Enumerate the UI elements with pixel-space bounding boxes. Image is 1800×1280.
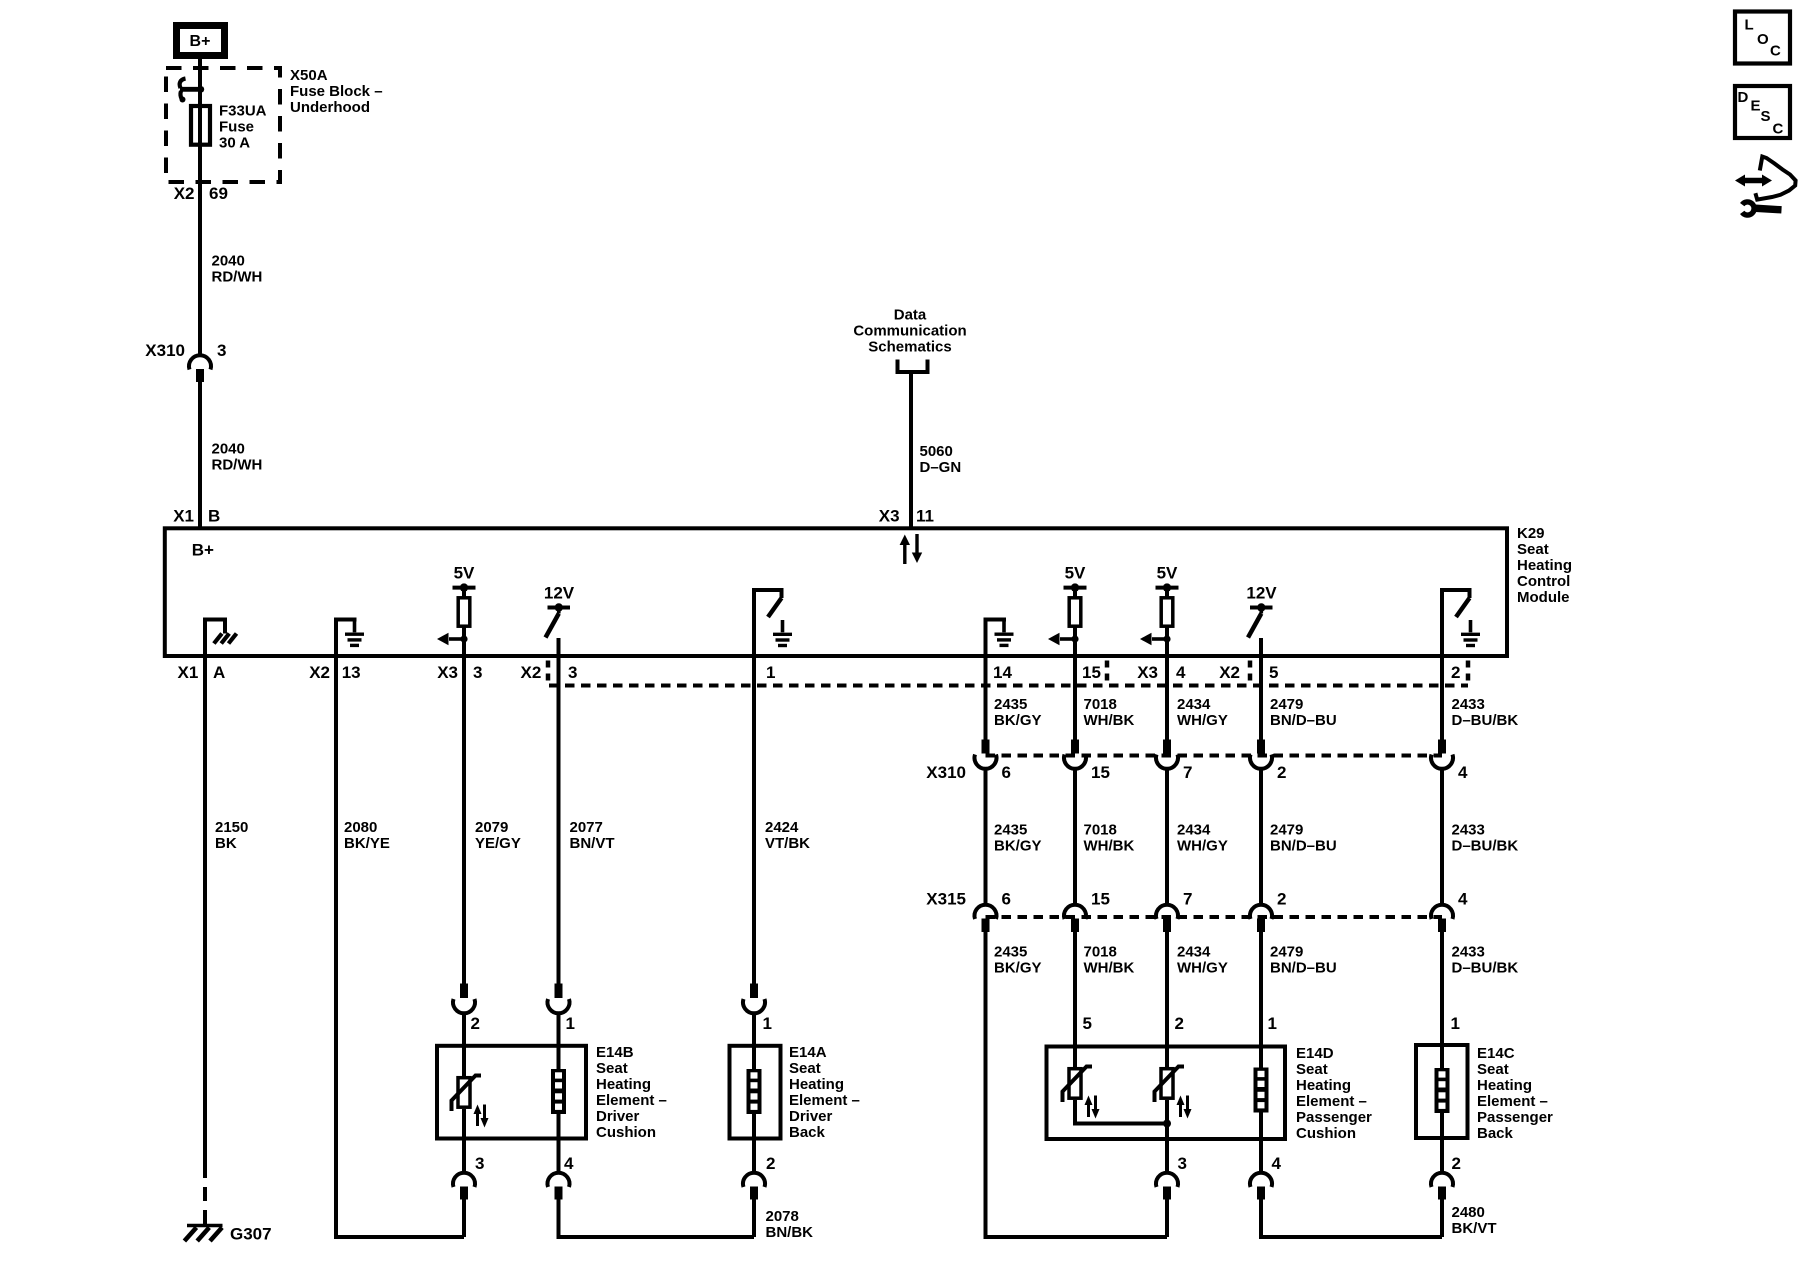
svg-text:E14A: E14A (789, 1044, 827, 1061)
svg-text:7018: 7018 (1084, 822, 1117, 839)
svg-text:2424: 2424 (765, 819, 799, 836)
svg-text:BK/GY: BK/GY (994, 960, 1042, 977)
svg-text:Heating: Heating (1477, 1077, 1532, 1094)
svg-text:Driver: Driver (596, 1108, 640, 1125)
svg-text:E: E (1751, 98, 1761, 115)
svg-text:X3: X3 (437, 663, 458, 682)
svg-text:5: 5 (1269, 663, 1278, 682)
svg-text:E14B: E14B (596, 1044, 634, 1061)
svg-text:3: 3 (473, 663, 482, 682)
svg-text:14: 14 (993, 663, 1012, 682)
svg-text:5060: 5060 (920, 443, 953, 460)
svg-text:E14D: E14D (1296, 1045, 1334, 1062)
svg-text:2: 2 (1277, 889, 1286, 908)
svg-text:2479: 2479 (1270, 822, 1303, 839)
svg-text:Element –: Element – (1296, 1093, 1367, 1110)
svg-text:B: B (208, 506, 220, 525)
svg-text:X310: X310 (145, 341, 185, 360)
svg-text:D–BU/BK: D–BU/BK (1452, 838, 1519, 855)
svg-text:Driver: Driver (789, 1108, 833, 1125)
svg-text:X2: X2 (1219, 663, 1240, 682)
svg-text:2: 2 (1452, 1154, 1461, 1173)
svg-text:X1: X1 (178, 663, 199, 682)
svg-text:5V: 5V (454, 563, 475, 582)
svg-text:7: 7 (1183, 889, 1192, 908)
svg-text:2040: 2040 (212, 253, 245, 270)
svg-text:6: 6 (1002, 889, 1011, 908)
svg-text:2079: 2079 (475, 819, 508, 836)
svg-text:D–BU/BK: D–BU/BK (1452, 712, 1519, 729)
svg-text:15: 15 (1091, 763, 1110, 782)
svg-text:2435: 2435 (994, 822, 1027, 839)
svg-text:5: 5 (1083, 1014, 1092, 1033)
svg-text:15: 15 (1082, 663, 1101, 682)
svg-text:O: O (1757, 31, 1769, 48)
svg-text:Seat: Seat (1477, 1061, 1509, 1078)
svg-text:S: S (1761, 108, 1771, 125)
svg-text:Back: Back (1477, 1125, 1514, 1142)
svg-text:RD/WH: RD/WH (212, 269, 263, 286)
svg-text:30 A: 30 A (219, 134, 250, 151)
svg-text:2150: 2150 (215, 819, 248, 836)
svg-text:BK/VT: BK/VT (1452, 1220, 1497, 1237)
svg-text:Heating: Heating (1296, 1077, 1351, 1094)
svg-text:11: 11 (916, 506, 934, 525)
svg-text:2: 2 (471, 1014, 480, 1033)
svg-text:Back: Back (789, 1124, 826, 1141)
svg-text:BN/D–BU: BN/D–BU (1270, 838, 1337, 855)
svg-text:1: 1 (766, 663, 775, 682)
svg-text:69: 69 (209, 184, 228, 203)
svg-text:X2: X2 (174, 184, 195, 203)
svg-text:X1: X1 (173, 506, 194, 525)
svg-text:BN/VT: BN/VT (570, 835, 615, 852)
svg-text:Seat: Seat (596, 1060, 628, 1077)
svg-text:WH/BK: WH/BK (1084, 712, 1135, 729)
svg-text:D–GN: D–GN (920, 459, 962, 476)
svg-text:2433: 2433 (1452, 822, 1485, 839)
svg-text:Cushion: Cushion (596, 1124, 656, 1141)
svg-text:7018: 7018 (1084, 944, 1117, 961)
svg-text:Data: Data (894, 306, 927, 323)
svg-text:4: 4 (1458, 889, 1468, 908)
svg-text:1: 1 (1451, 1014, 1460, 1033)
svg-text:3: 3 (568, 663, 577, 682)
svg-text:F33UA: F33UA (219, 102, 267, 119)
svg-text:Underhood: Underhood (290, 99, 370, 116)
svg-text:BK/GY: BK/GY (994, 838, 1042, 855)
svg-text:Element –: Element – (596, 1092, 667, 1109)
svg-text:WH/GY: WH/GY (1177, 960, 1228, 977)
svg-text:2434: 2434 (1177, 696, 1211, 713)
svg-text:BN/D–BU: BN/D–BU (1270, 712, 1337, 729)
svg-text:X2: X2 (309, 663, 330, 682)
svg-text:Passenger: Passenger (1296, 1109, 1372, 1126)
svg-text:2: 2 (1451, 663, 1460, 682)
svg-text:2: 2 (1175, 1014, 1184, 1033)
svg-text:BK/YE: BK/YE (344, 835, 390, 852)
svg-text:Control: Control (1517, 573, 1570, 590)
svg-text:2479: 2479 (1270, 944, 1303, 961)
svg-text:BN/D–BU: BN/D–BU (1270, 960, 1337, 977)
svg-text:BN/BK: BN/BK (766, 1224, 814, 1241)
svg-text:2080: 2080 (344, 819, 377, 836)
svg-text:2435: 2435 (994, 696, 1027, 713)
svg-text:12V: 12V (544, 584, 575, 603)
svg-text:2479: 2479 (1270, 696, 1303, 713)
svg-text:2435: 2435 (994, 944, 1027, 961)
svg-text:A: A (213, 663, 225, 682)
svg-text:1: 1 (566, 1014, 575, 1033)
svg-text:2480: 2480 (1452, 1204, 1485, 1221)
svg-text:C: C (1770, 43, 1781, 60)
svg-text:2433: 2433 (1452, 696, 1485, 713)
svg-text:4: 4 (1272, 1154, 1282, 1173)
svg-text:BK/GY: BK/GY (994, 712, 1042, 729)
svg-text:X315: X315 (926, 889, 966, 908)
svg-text:Heating: Heating (596, 1076, 651, 1093)
svg-text:4: 4 (1176, 663, 1186, 682)
svg-text:7: 7 (1183, 763, 1192, 782)
svg-text:X310: X310 (926, 763, 966, 782)
svg-text:2434: 2434 (1177, 944, 1211, 961)
svg-text:2433: 2433 (1452, 944, 1485, 961)
svg-text:B+: B+ (190, 33, 211, 50)
svg-text:1: 1 (1268, 1014, 1277, 1033)
svg-text:2: 2 (1277, 763, 1286, 782)
svg-text:2077: 2077 (570, 819, 603, 836)
svg-text:Seat: Seat (789, 1060, 821, 1077)
svg-text:Element –: Element – (1477, 1093, 1548, 1110)
svg-text:Module: Module (1517, 589, 1570, 606)
svg-text:13: 13 (342, 663, 361, 682)
svg-text:Schematics: Schematics (868, 338, 951, 355)
svg-text:Seat: Seat (1296, 1061, 1328, 1078)
svg-text:VT/BK: VT/BK (765, 835, 810, 852)
svg-text:Communication: Communication (853, 322, 966, 339)
svg-text:X3: X3 (1137, 663, 1158, 682)
svg-text:X3: X3 (879, 506, 900, 525)
svg-text:D: D (1738, 89, 1749, 106)
svg-text:Seat: Seat (1517, 541, 1549, 558)
svg-text:E14C: E14C (1477, 1045, 1515, 1062)
svg-text:WH/GY: WH/GY (1177, 712, 1228, 729)
svg-text:WH/BK: WH/BK (1084, 960, 1135, 977)
svg-text:5V: 5V (1157, 563, 1178, 582)
svg-text:4: 4 (564, 1154, 574, 1173)
svg-text:12V: 12V (1246, 584, 1277, 603)
svg-text:RD/WH: RD/WH (212, 457, 263, 474)
svg-text:2434: 2434 (1177, 822, 1211, 839)
svg-text:BK: BK (215, 835, 237, 852)
svg-text:X50A: X50A (290, 67, 328, 84)
svg-text:K29: K29 (1517, 525, 1545, 542)
svg-text:WH/GY: WH/GY (1177, 838, 1228, 855)
svg-text:6: 6 (1002, 763, 1011, 782)
svg-text:2: 2 (766, 1154, 775, 1173)
svg-text:2078: 2078 (766, 1208, 799, 1225)
svg-text:B+: B+ (192, 541, 214, 560)
svg-text:5V: 5V (1065, 563, 1086, 582)
svg-text:Fuse Block –: Fuse Block – (290, 83, 383, 100)
svg-text:4: 4 (1458, 763, 1468, 782)
svg-text:15: 15 (1091, 889, 1110, 908)
svg-text:X2: X2 (521, 663, 542, 682)
svg-text:G307: G307 (230, 1225, 272, 1244)
svg-text:WH/BK: WH/BK (1084, 838, 1135, 855)
svg-text:Fuse: Fuse (219, 118, 254, 135)
svg-text:1: 1 (763, 1014, 772, 1033)
svg-text:L: L (1745, 17, 1754, 34)
svg-text:Heating: Heating (789, 1076, 844, 1093)
svg-text:D–BU/BK: D–BU/BK (1452, 960, 1519, 977)
svg-text:Heating: Heating (1517, 557, 1572, 574)
svg-text:YE/GY: YE/GY (475, 835, 521, 852)
svg-text:2040: 2040 (212, 441, 245, 458)
svg-text:C: C (1773, 121, 1784, 138)
svg-text:3: 3 (1178, 1154, 1187, 1173)
svg-text:Element –: Element – (789, 1092, 860, 1109)
svg-text:3: 3 (475, 1154, 484, 1173)
svg-text:3: 3 (217, 341, 226, 360)
svg-text:Cushion: Cushion (1296, 1125, 1356, 1142)
svg-text:Passenger: Passenger (1477, 1109, 1553, 1126)
svg-text:7018: 7018 (1084, 696, 1117, 713)
